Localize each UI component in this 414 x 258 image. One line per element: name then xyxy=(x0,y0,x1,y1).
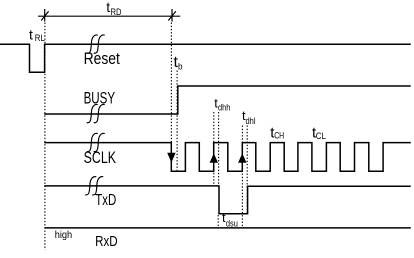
arrow up on SCLK rising edge (tdhl) xyxy=(239,154,246,162)
svg-text:dsu: dsu xyxy=(226,219,238,230)
label tdhl xyxy=(242,108,256,127)
break squiggle on SCLK line xyxy=(87,133,97,151)
dotted extension line at x=171.4 xyxy=(170,23,172,143)
svg-text:RxD: RxD xyxy=(95,233,118,250)
wire Reset waveform xyxy=(0,44,410,72)
svg-text:RL: RL xyxy=(35,33,45,44)
svg-text:SCLK: SCLK xyxy=(84,148,117,167)
svg-text:CL: CL xyxy=(316,131,326,142)
label tCH xyxy=(270,124,284,141)
svg-text:CH: CH xyxy=(274,131,284,142)
tick right of tRD xyxy=(168,9,175,22)
label tRL xyxy=(29,27,45,45)
svg-text:b: b xyxy=(178,62,183,73)
break squiggle on Reset line xyxy=(87,35,97,53)
label tdsu xyxy=(222,210,238,230)
dotted extension line tdhh left x=213.8 xyxy=(213,112,215,185)
break squiggle on TxD line xyxy=(86,177,96,195)
wire BUSY waveform xyxy=(45,86,410,114)
svg-text:high: high xyxy=(55,229,73,241)
break squiggle on BUSY line xyxy=(87,104,97,122)
svg-text:t: t xyxy=(29,27,33,43)
arrow up on SCLK rising edge (tdhh) xyxy=(210,154,217,162)
svg-text:Reset: Reset xyxy=(84,49,121,68)
svg-text:dhh: dhh xyxy=(218,103,230,114)
label tRD xyxy=(106,0,121,18)
label tCL xyxy=(312,124,326,142)
svg-text:TxD: TxD xyxy=(95,192,116,209)
dotted extension line tdhl left x=242.4 xyxy=(241,126,243,227)
wire SCLK waveform xyxy=(45,143,410,172)
svg-text:BUSY: BUSY xyxy=(84,88,116,107)
wire RxD waveform xyxy=(46,227,411,229)
tick left of tRD xyxy=(41,9,48,22)
svg-text:RD: RD xyxy=(111,7,122,18)
label tdhh xyxy=(214,96,230,114)
dotted extension line tdhh right x=218.6 xyxy=(218,112,220,185)
dotted extension line tdsu left x=218.2 xyxy=(217,215,219,226)
wire TxD waveform xyxy=(45,186,410,214)
dotted extension line at reset rise x=45 xyxy=(44,23,46,251)
arrow down onto SCLK first falling edge xyxy=(168,153,175,161)
dotted extension line tb x=177 xyxy=(176,71,178,172)
dotted extension line tdhl right x=247.2 xyxy=(246,126,248,214)
label tb xyxy=(174,54,183,73)
svg-text:dhl: dhl xyxy=(246,116,256,127)
dimension line tRD xyxy=(38,15,180,17)
